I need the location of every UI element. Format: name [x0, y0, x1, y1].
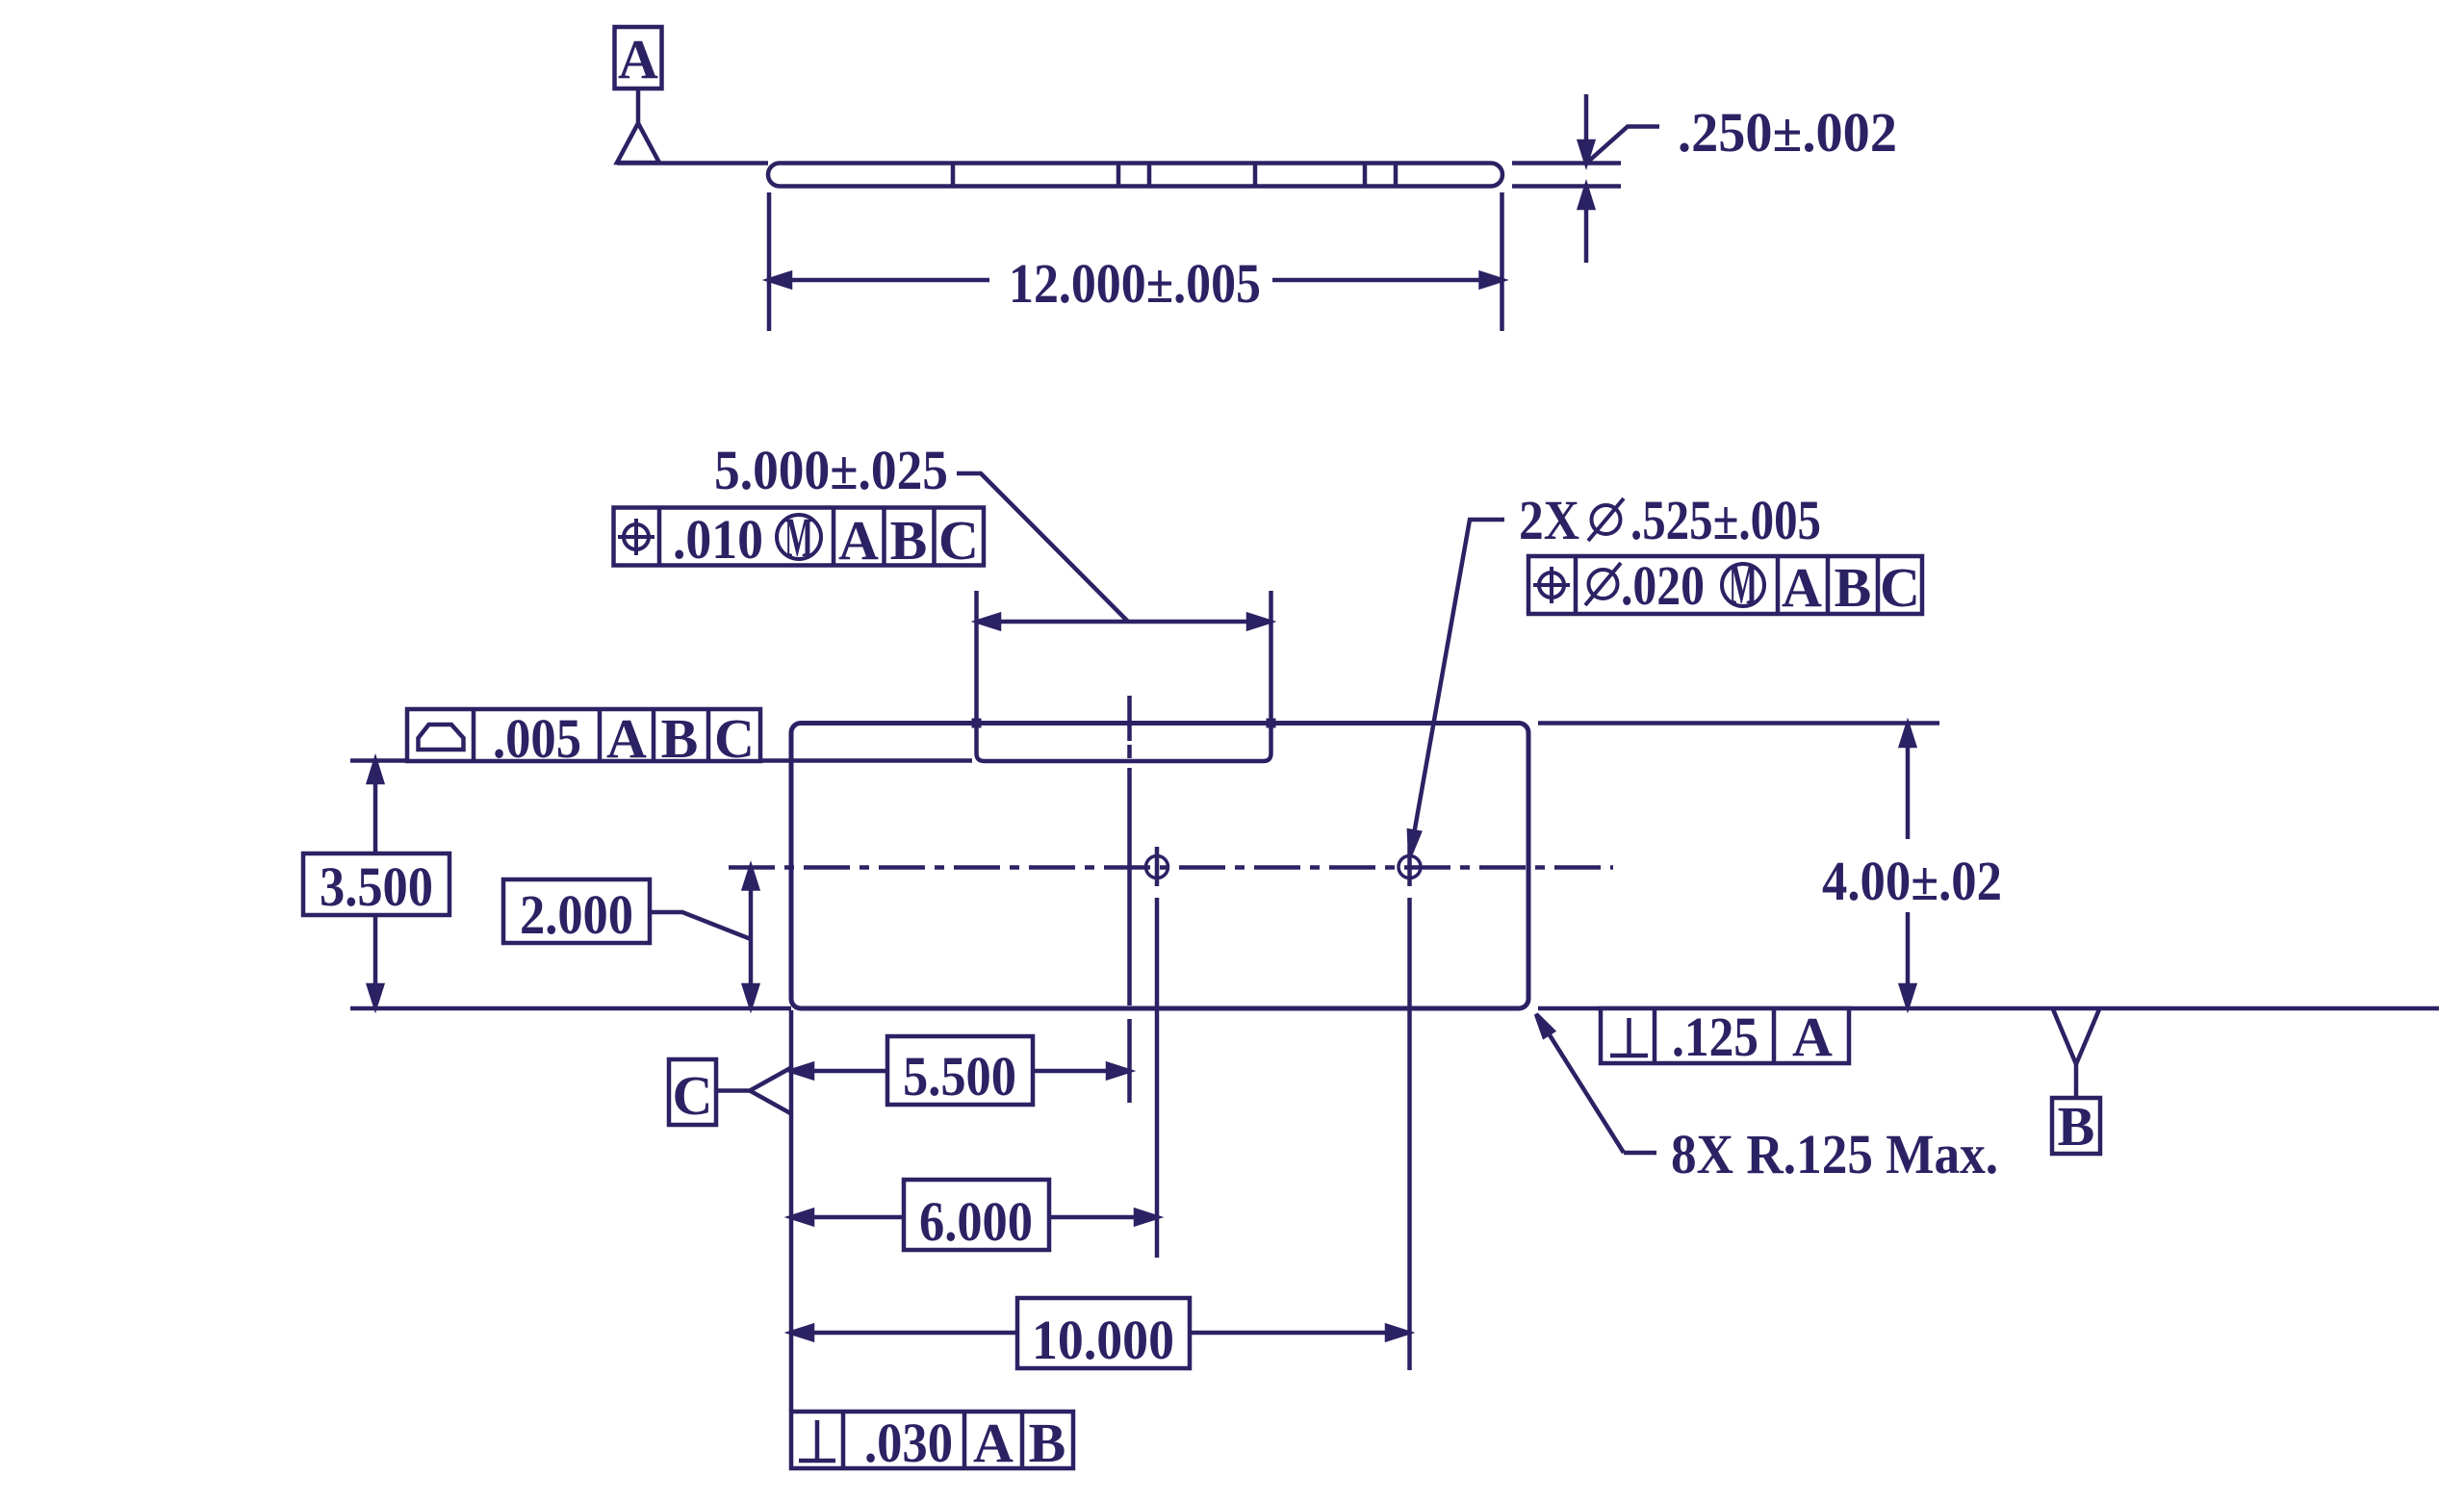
svg-text:C: C	[714, 707, 755, 770]
svg-text:4.00±.02: 4.00±.02	[1822, 850, 2002, 912]
hole 2 centerline	[1407, 847, 1412, 1370]
top view plate	[768, 164, 1502, 187]
svg-text:.030: .030	[864, 1412, 953, 1474]
svg-text:M: M	[784, 506, 813, 569]
position FCF 1 M modifier	[777, 506, 821, 569]
dimension 5.500 box	[887, 1036, 1033, 1105]
svg-text:5.500: 5.500	[903, 1045, 1016, 1107]
svg-text:.020: .020	[1621, 554, 1705, 617]
hole 1 centerline	[1155, 847, 1160, 1258]
plate tick 2	[1116, 164, 1121, 187]
plate tick 3	[1147, 164, 1152, 187]
datum B box	[2052, 1095, 2100, 1158]
dimension 2X hole leader	[1405, 520, 1504, 856]
svg-text:10.000: 10.000	[1032, 1309, 1174, 1371]
datum C leader	[716, 1088, 750, 1093]
plate tick 1	[951, 164, 956, 187]
slot centerline	[1127, 696, 1132, 741]
main centerline	[729, 865, 1613, 870]
position FCF 1 position symbol	[618, 519, 654, 555]
svg-text:B: B	[2058, 1095, 2095, 1158]
dimension 5.500 line and arrows	[791, 1064, 1129, 1078]
hole 2 circle	[1399, 856, 1421, 878]
plate tick 4	[1253, 164, 1258, 187]
profile FCF surface profile symbol	[419, 725, 464, 750]
dimension .250 upper arrow	[1579, 94, 1593, 164]
svg-text:A: A	[838, 509, 879, 572]
dimension 4.00 arrows	[1901, 725, 1914, 1006]
plate tick 5	[1363, 164, 1368, 187]
svg-text:B: B	[890, 509, 928, 572]
datum C open triangle	[750, 1067, 792, 1114]
perpendicularity symbol right	[1610, 1018, 1648, 1056]
slot profile	[977, 725, 1271, 761]
datum C box	[669, 1059, 716, 1127]
svg-text:A: A	[973, 1412, 1014, 1474]
dimension 5.000 extension lines	[977, 591, 1271, 719]
perpendicularity FCF bottom frame	[791, 1412, 1073, 1468]
svg-text:.525±.005: .525±.005	[1630, 489, 1821, 551]
svg-text:2X: 2X	[1519, 489, 1579, 551]
dimension 10.000 line and arrows	[791, 1326, 1408, 1339]
datum B open triangle	[2053, 1009, 2099, 1064]
bottom extension line right	[1538, 1006, 2439, 1011]
note 8X leader arrow	[1536, 1014, 1656, 1153]
svg-text:.125: .125	[1672, 1006, 1758, 1068]
position FCF 2 frame	[1528, 556, 1922, 614]
top extension line right	[1538, 721, 1939, 726]
svg-text:6.000: 6.000	[919, 1190, 1033, 1253]
svg-text:M: M	[1729, 553, 1758, 616]
svg-text:A: A	[618, 28, 658, 90]
slot corner square right	[1267, 719, 1276, 728]
svg-text:B: B	[1029, 1412, 1066, 1474]
dimension 6.000 line and arrows	[791, 1210, 1157, 1224]
dimension 3.500 box	[303, 853, 449, 915]
svg-text:3.500: 3.500	[320, 855, 433, 918]
front view outline	[791, 724, 1528, 1009]
slot bottom extension line	[350, 758, 972, 763]
svg-text:A: A	[1792, 1006, 1833, 1068]
position FCF 2 M modifier	[1722, 553, 1764, 616]
svg-text:C: C	[1880, 556, 1920, 619]
plate tick 6	[1394, 164, 1399, 187]
dimension 5.000 line and arrows	[978, 615, 1270, 628]
datum A stem	[636, 89, 641, 123]
dimension 2.000 arrows	[744, 868, 757, 1007]
slot corner square left	[972, 719, 982, 728]
datum A extension line	[617, 161, 768, 165]
svg-text:8X R.125 Max.: 8X R.125 Max.	[1671, 1123, 1998, 1185]
datum B stem	[2074, 1064, 2079, 1098]
perpendicularity symbol bottom	[799, 1420, 835, 1461]
dimension 5.000 leader	[957, 473, 1128, 622]
dimension 6.000 box	[904, 1180, 1049, 1250]
svg-text:A: A	[606, 707, 647, 770]
hole 1 circle	[1146, 856, 1168, 878]
position FCF 2 diameter symbol	[1585, 563, 1621, 605]
svg-text:.250±.002: .250±.002	[1678, 101, 1897, 164]
position FCF 2 position symbol	[1533, 567, 1570, 603]
svg-text:C: C	[673, 1064, 713, 1127]
svg-text:.010: .010	[673, 508, 763, 571]
dimension .250 extension lines	[1512, 164, 1621, 187]
svg-text:5.000±.025: 5.000±.025	[714, 439, 948, 501]
dimension .250 leader	[1588, 127, 1659, 163]
left edge extension line down	[789, 1010, 794, 1412]
profile FCF frame	[407, 709, 760, 761]
svg-text:12.000±.005: 12.000±.005	[1009, 252, 1261, 315]
bottom extension line left	[350, 1006, 791, 1011]
svg-text:A: A	[1782, 556, 1822, 619]
datum A box	[615, 27, 662, 90]
dimension 12.000 extension lines	[769, 192, 1502, 331]
dimension 2.000 box	[503, 879, 650, 943]
dimension 10.000 box	[1017, 1298, 1190, 1368]
svg-text:.005: .005	[493, 707, 581, 770]
dimension .250 lower arrow	[1579, 187, 1593, 264]
dimension 12.000 line and arrows	[769, 273, 1502, 287]
svg-text:B: B	[661, 707, 699, 770]
svg-text:C: C	[938, 509, 979, 572]
svg-text:B: B	[1835, 556, 1872, 619]
svg-text:2.000: 2.000	[520, 883, 633, 946]
perpendicularity FCF right frame	[1601, 1008, 1849, 1063]
datum A triangle	[617, 123, 659, 163]
dimension 2.000 leader	[650, 912, 751, 939]
dimension 3.500 arrows	[369, 761, 382, 1007]
position FCF 1 frame	[614, 508, 985, 566]
